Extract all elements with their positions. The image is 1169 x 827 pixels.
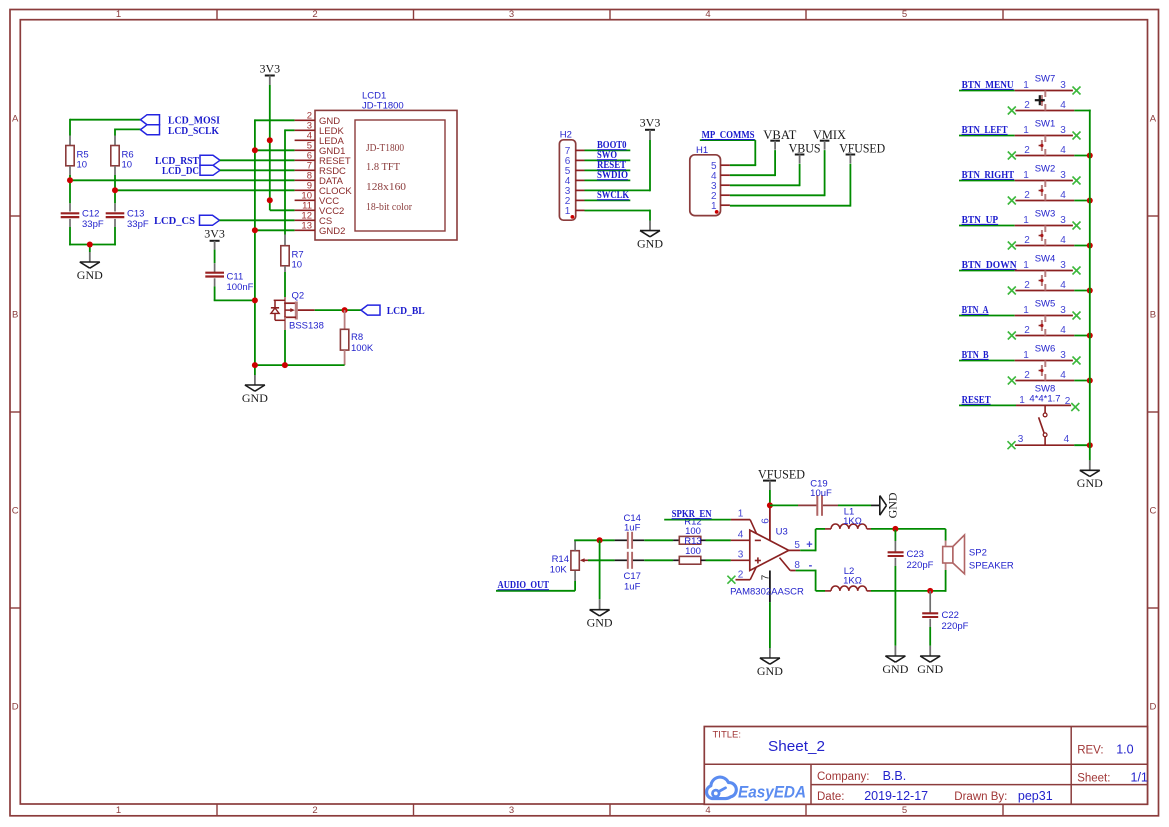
wire C23 to gnd	[894, 566, 896, 656]
no-connect X SW6 pin2	[1008, 377, 1016, 385]
connector LCD1 JD-T1800	[315, 91, 457, 241]
ground	[757, 658, 783, 678]
svg-text:A: A	[1150, 113, 1157, 124]
resistor R5	[66, 136, 89, 176]
no-connect X SW7 pin3	[1073, 87, 1081, 95]
svg-text:5: 5	[902, 9, 907, 20]
svg-text:4: 4	[1064, 434, 1070, 445]
wire LCD_RST to pin 6	[220, 159, 295, 161]
cursor crosshair	[1035, 95, 1045, 105]
svg-text:3: 3	[1060, 125, 1066, 136]
wire / net label BTN_DOWN	[959, 260, 1017, 271]
svg-text:GND: GND	[242, 391, 268, 405]
junction Q2 source	[282, 362, 288, 368]
LCD1 pin 3 LEDK	[295, 121, 345, 137]
wire VFUSED to U3 pin6	[769, 490, 771, 505]
svg-text:SP2: SP2	[969, 548, 987, 559]
svg-text:1: 1	[1019, 395, 1025, 406]
wire / net label BTN_A	[959, 305, 1015, 316]
switch SW8 4*4*1.7	[1015, 384, 1074, 446]
net flag LCD_CS	[154, 215, 220, 227]
svg-text:4: 4	[1060, 100, 1066, 111]
power flag VBUS	[789, 141, 821, 164]
svg-text:3V3: 3V3	[640, 115, 661, 129]
net flag LCD_BL	[361, 305, 425, 317]
wire CLOCK row (R6 to LCD pin 9)	[115, 175, 295, 203]
junction L2/C22	[927, 588, 933, 594]
resistor R12 100	[673, 516, 705, 544]
power flag VMIX	[813, 127, 847, 150]
resistor R8 100K	[340, 310, 373, 365]
svg-text:GND: GND	[757, 664, 783, 678]
power flag 3V3 (C11)	[204, 226, 225, 249]
wire C19 to gnd	[838, 504, 871, 506]
svg-text:3: 3	[1060, 260, 1066, 271]
svg-text:5: 5	[902, 805, 907, 816]
svg-text:GND: GND	[587, 616, 613, 630]
svg-text:3V3: 3V3	[204, 226, 225, 240]
junction SW8/bus	[1087, 442, 1093, 448]
svg-text:TITLE:: TITLE:	[713, 730, 742, 741]
svg-text:H2: H2	[560, 129, 572, 140]
EasyEDA logo	[707, 777, 806, 801]
svg-text:10K: 10K	[550, 564, 568, 575]
wire button gnd bus	[1089, 110, 1091, 471]
wire H2 pin3 to 3V3	[585, 140, 651, 191]
svg-text:220pF: 220pF	[907, 560, 934, 571]
wire / net label AUDIO_OUT	[496, 580, 575, 591]
wire SW2 pin4 to gnd bus	[1074, 200, 1090, 202]
svg-text:U3: U3	[776, 526, 788, 537]
capacitor C13 33pF	[106, 203, 149, 230]
power flag VFUSED	[839, 141, 885, 164]
row letters left	[12, 113, 19, 712]
svg-text:SW6: SW6	[1035, 344, 1056, 355]
svg-text:C: C	[1149, 505, 1156, 516]
svg-text:2: 2	[1065, 396, 1071, 407]
H2 pin 5	[565, 166, 585, 177]
ground	[917, 656, 943, 676]
switch SW1	[1015, 119, 1075, 156]
wire DATA row (R5 to LCD pin 8)	[70, 175, 295, 203]
svg-text:4: 4	[705, 805, 710, 816]
resistor R6	[111, 136, 134, 176]
switch SW2	[1015, 164, 1075, 201]
wire L1 to speaker top	[871, 529, 946, 541]
junction L1/C23	[892, 526, 898, 532]
svg-text:BTN_MENU: BTN_MENU	[962, 80, 1014, 91]
svg-text:33pF: 33pF	[127, 219, 149, 230]
no-connect X SW8 pin3	[1008, 441, 1016, 449]
svg-text:B: B	[12, 309, 18, 320]
svg-text:SW1: SW1	[1035, 119, 1056, 130]
svg-text:GND: GND	[77, 268, 103, 282]
wire / net label SWO	[585, 150, 631, 161]
wire R14 top row	[574, 539, 614, 541]
wire H2 pin1 to GND	[585, 210, 651, 231]
transistor Q2 BSS138	[271, 291, 324, 332]
svg-text:JD-T1800: JD-T1800	[366, 142, 404, 154]
svg-text:B: B	[1150, 309, 1156, 320]
LCD1 pin 6 RESET	[295, 151, 351, 167]
LCD1 pin 9 CLOCK	[295, 181, 353, 197]
no-connect X SW8 pin2	[1071, 403, 1079, 411]
svg-text:SPKR_EN: SPKR_EN	[672, 509, 712, 520]
no-connect X SW7 pin2	[1008, 107, 1016, 115]
junction SW5/bus	[1087, 333, 1093, 339]
svg-text:GND: GND	[637, 237, 663, 251]
potentiometer R14 10K	[550, 540, 588, 581]
wire LEDK to R7	[285, 129, 295, 234]
wire C22 to gnd	[929, 627, 931, 656]
wire SW1 pin4 to gnd bus	[1074, 155, 1090, 157]
wire C12/C13 bottoms to GND	[69, 227, 116, 262]
svg-text:3: 3	[1060, 80, 1066, 91]
inductor L2 1KO	[825, 566, 871, 591]
wire U3 pin5 output	[789, 529, 825, 551]
wire H1 pin3 to VBUS	[730, 164, 800, 186]
power flag VFUSED (U3)	[758, 466, 805, 490]
svg-text:C: C	[12, 505, 19, 516]
svg-text:1: 1	[565, 206, 571, 217]
junction 3V3/LEDA	[267, 137, 273, 143]
svg-text:1uF: 1uF	[624, 523, 641, 534]
capacitor C19 10uF	[798, 478, 838, 516]
svg-text:BTN_DOWN: BTN_DOWN	[962, 260, 1017, 271]
H2 pin 7	[565, 146, 585, 157]
svg-text:100K: 100K	[351, 343, 374, 354]
LCD1 pin 7 RSDC	[295, 161, 346, 177]
capacitor C14 1uF	[615, 513, 645, 549]
svg-text:LCD_DC: LCD_DC	[162, 166, 199, 177]
ground	[882, 656, 908, 676]
svg-text:SWCLK: SWCLK	[597, 190, 630, 201]
svg-text:D: D	[12, 701, 19, 712]
ground	[242, 385, 268, 405]
wire / net label BTN_UP	[959, 215, 1015, 226]
net flag LCD_SCLK	[141, 125, 220, 138]
ground	[637, 231, 663, 251]
svg-text:6: 6	[761, 518, 772, 524]
svg-text:Date:: Date:	[817, 791, 845, 803]
junction R14 top / gnd drop	[597, 537, 603, 543]
junction SW2/bus	[1087, 198, 1093, 204]
net flag LCD_MOSI	[141, 115, 221, 127]
svg-text:220pF: 220pF	[942, 621, 969, 632]
no-connect X SW3 pin3	[1073, 222, 1081, 230]
svg-text:BTN_RIGHT: BTN_RIGHT	[962, 170, 1015, 181]
wire R6 top to LCD_SCLK flag	[115, 129, 141, 136]
svg-text:A: A	[12, 113, 19, 124]
svg-text:Q2: Q2	[292, 291, 305, 302]
svg-text:EasyEDA: EasyEDA	[738, 783, 806, 802]
LCD1 pin 13 GND2	[295, 221, 346, 237]
power flag VBAT	[763, 127, 796, 150]
junction SW3/bus	[1087, 243, 1093, 249]
svg-text:1: 1	[1023, 305, 1029, 316]
svg-text:4: 4	[705, 9, 710, 20]
wire SW3 pin4 to gnd bus	[1074, 245, 1090, 247]
H1 pin 4	[711, 171, 730, 182]
wire / net label MP_COMMS	[700, 130, 756, 165]
H2 pin 6	[565, 156, 585, 167]
svg-text:8: 8	[794, 560, 800, 571]
svg-text:128x160: 128x160	[366, 181, 407, 193]
svg-text:PAM8302AASCR: PAM8302AASCR	[730, 587, 804, 598]
H1 pin 3	[711, 181, 730, 192]
switch SW6	[1015, 344, 1075, 381]
wire / net label BOOT0	[585, 140, 631, 151]
ground (U3 pin7)	[769, 602, 771, 658]
net flag LCD_DC	[162, 165, 220, 177]
no-connect X SW2 pin3	[1073, 177, 1081, 185]
LCD1 pin 4 LEDA	[295, 131, 345, 147]
ground	[587, 610, 613, 630]
svg-text:5: 5	[794, 540, 800, 551]
switch SW3	[1015, 209, 1075, 246]
no-connect X SW5 pin2	[1008, 332, 1016, 340]
svg-text:2: 2	[1024, 190, 1030, 201]
svg-text:VFUSED: VFUSED	[839, 141, 885, 156]
svg-text:SW3: SW3	[1035, 209, 1056, 220]
junction rail/gnd	[252, 362, 258, 368]
svg-text:3: 3	[1060, 215, 1066, 226]
svg-text:R14: R14	[552, 554, 569, 565]
svg-text:1: 1	[1023, 215, 1029, 226]
svg-text:1: 1	[1023, 170, 1029, 181]
junction SW4/bus	[1087, 288, 1093, 294]
svg-text:Company:: Company:	[817, 771, 869, 783]
wire H1 pin1 to VFUSED	[730, 164, 851, 207]
power flag 3V3 (LCD supply)	[259, 61, 280, 85]
wire pin6 junction to C19	[770, 504, 798, 506]
svg-text:2: 2	[1024, 325, 1030, 336]
wire H1 pin4 to VBAT	[730, 150, 775, 176]
H2 pin 2	[565, 196, 585, 207]
svg-text:18-bit color: 18-bit color	[366, 201, 412, 213]
no-connect X SW4 pin3	[1073, 267, 1081, 275]
svg-text:2: 2	[1024, 280, 1030, 291]
wire LCD_CS to pin 12	[220, 219, 295, 221]
LCD1 pin 5 GND1	[295, 141, 346, 157]
switch SW5	[1015, 299, 1075, 336]
LCD1 pin 10 VCC	[295, 191, 340, 207]
svg-text:AUDIO_OUT: AUDIO_OUT	[498, 580, 550, 591]
svg-text:BTN_LEFT: BTN_LEFT	[962, 125, 1008, 136]
svg-text:C23: C23	[907, 549, 924, 560]
wire LCD_DC to pin 7	[220, 169, 295, 171]
H1 pin 5	[711, 161, 730, 172]
svg-text:10: 10	[77, 160, 88, 171]
no-connect X SW4 pin2	[1008, 287, 1016, 295]
svg-text:2: 2	[312, 9, 317, 20]
wire C17 to R13	[644, 559, 673, 561]
svg-text:MP_COMMS: MP_COMMS	[702, 130, 755, 141]
LCD1 pin 11 VCC2	[295, 201, 345, 217]
junction C12 GND wire	[87, 242, 93, 248]
svg-text:1.8 TFT: 1.8 TFT	[366, 161, 400, 173]
svg-text:3: 3	[509, 9, 514, 20]
wire gnd drop	[599, 540, 601, 609]
H1 pin1 marker	[715, 210, 719, 214]
wire / net label SWDIO	[585, 170, 631, 181]
junction C11/bus	[252, 297, 258, 303]
no-connect X U3 pin2	[727, 576, 735, 584]
svg-text:2: 2	[1024, 370, 1030, 381]
junction GND2	[252, 227, 258, 233]
svg-text:VBUS: VBUS	[789, 141, 821, 156]
wire R12 to U3 pin4	[706, 539, 731, 541]
svg-text:C12: C12	[82, 209, 99, 220]
svg-text:Sheet:: Sheet:	[1077, 772, 1110, 784]
H2 pin 3	[565, 186, 585, 197]
svg-text:BSS138: BSS138	[289, 321, 324, 332]
svg-text:BTN_B: BTN_B	[962, 350, 989, 361]
svg-text:3: 3	[509, 805, 514, 816]
junction R5/DATA	[67, 177, 73, 183]
svg-text:VBAT: VBAT	[763, 127, 796, 142]
svg-text:SW4: SW4	[1035, 254, 1056, 265]
svg-text:REV:: REV:	[1077, 745, 1103, 757]
resistor R13 100	[673, 536, 705, 564]
power flag 3V3 (H2)	[640, 115, 661, 140]
no-connect X SW3 pin2	[1008, 242, 1016, 250]
H2 pin 1	[565, 206, 585, 217]
svg-text:+: +	[806, 539, 812, 551]
svg-text:1: 1	[116, 9, 121, 20]
junction GND1	[252, 147, 258, 153]
wire / net label RESET	[585, 160, 631, 171]
svg-text:1uF: 1uF	[624, 581, 641, 592]
wire Q2 source / bottom gnd rail	[255, 330, 345, 385]
inductor L1 1KO	[825, 507, 871, 529]
svg-text:C17: C17	[623, 571, 640, 582]
svg-text:SWDIO: SWDIO	[597, 170, 628, 181]
svg-text:C22: C22	[942, 610, 959, 621]
no-connect X SW5 pin3	[1073, 312, 1081, 320]
svg-text:3: 3	[1060, 170, 1066, 181]
capacitor C22 220pF	[922, 591, 968, 632]
connector H2	[559, 129, 575, 220]
wire C11 to gnd bus	[214, 286, 255, 300]
H2 pin 4	[565, 176, 585, 187]
switch SW4	[1015, 254, 1075, 291]
svg-text:GND: GND	[1077, 476, 1103, 490]
wire R5 top to LCD_MOSI flag	[70, 119, 141, 136]
wire / net label RESET (SW8)	[959, 395, 1016, 406]
row letters right	[1149, 113, 1156, 712]
svg-text:BTN_UP: BTN_UP	[962, 215, 999, 226]
svg-text:13: 13	[301, 221, 312, 232]
svg-text:10uF: 10uF	[810, 488, 832, 499]
svg-text:1/1: 1/1	[1131, 770, 1148, 784]
svg-text:1: 1	[738, 508, 744, 519]
LCD1 pin 2 GND	[295, 111, 341, 127]
junction SW6/bus	[1087, 378, 1093, 384]
svg-text:GND2: GND2	[319, 226, 345, 237]
svg-text:33pF: 33pF	[82, 219, 104, 230]
ground	[77, 262, 103, 282]
title block	[704, 727, 1148, 805]
capacitor C12 33pF	[61, 203, 104, 230]
svg-text:R8: R8	[351, 332, 363, 343]
svg-text:LCD_BL: LCD_BL	[387, 306, 425, 317]
svg-text:RESET: RESET	[962, 395, 991, 406]
wire H1 pin5 to MP_COMMS	[730, 164, 756, 166]
svg-text:LCD_CS: LCD_CS	[154, 216, 195, 227]
no-connect X SW1 pin3	[1073, 132, 1081, 140]
svg-text:3V3: 3V3	[259, 61, 280, 75]
svg-text:SW2: SW2	[1035, 164, 1056, 175]
wire Q2 gate to LCD_BL	[315, 309, 361, 311]
svg-text:4: 4	[1060, 145, 1066, 156]
wire SW6 pin4 to gnd bus	[1074, 380, 1090, 382]
svg-text:3: 3	[1018, 434, 1024, 445]
svg-text:2: 2	[1024, 145, 1030, 156]
no-connect X SW2 pin2	[1008, 197, 1016, 205]
svg-text:1: 1	[1023, 350, 1029, 361]
svg-text:C13: C13	[127, 209, 144, 220]
svg-text:4: 4	[1060, 280, 1066, 291]
speaker SP2	[943, 535, 1014, 574]
wire / net label BTN_RIGHT	[959, 170, 1015, 181]
svg-text:VMIX: VMIX	[813, 127, 847, 142]
svg-text:2: 2	[738, 570, 744, 581]
svg-text:100nF: 100nF	[227, 282, 254, 293]
svg-text:1.0: 1.0	[1116, 743, 1133, 757]
svg-text:1: 1	[1023, 260, 1029, 271]
svg-text:2019-12-17: 2019-12-17	[864, 789, 928, 803]
switch SW7	[1015, 74, 1075, 111]
svg-text:4: 4	[1060, 370, 1066, 381]
wire / net label SPKR_EN	[664, 509, 731, 520]
capacitor C23 220pF	[888, 530, 934, 571]
svg-text:GND: GND	[882, 662, 908, 676]
svg-text:10: 10	[122, 160, 133, 171]
svg-text:SW7: SW7	[1035, 74, 1056, 85]
wire / net label BTN_LEFT	[959, 125, 1015, 136]
svg-text:3: 3	[1060, 305, 1066, 316]
wire C14 to R12	[644, 539, 673, 541]
wire / net label BTN_MENU	[959, 80, 1015, 91]
column numbers bottom	[116, 805, 907, 816]
column numbers top	[116, 9, 907, 20]
svg-text:2: 2	[1024, 100, 1030, 111]
wire U3 pin8 output	[780, 558, 826, 591]
no-connect X SW1 pin2	[1008, 152, 1016, 160]
H1 pin 2	[711, 191, 730, 202]
capacitor C17 1uF	[615, 552, 645, 593]
svg-text:C11: C11	[227, 272, 244, 283]
wire SW7 pin4 to gnd bus	[1074, 110, 1090, 112]
no-connect X SW6 pin3	[1073, 357, 1081, 365]
svg-text:1KΩ: 1KΩ	[843, 576, 862, 587]
ground	[1077, 470, 1103, 490]
junction R6/CLOCK	[112, 187, 118, 193]
svg-text:LCD_MOSI: LCD_MOSI	[168, 116, 220, 127]
wire L2 to speaker bottom	[871, 570, 946, 592]
svg-text:4: 4	[1060, 190, 1066, 201]
connector H1	[690, 145, 721, 216]
junction 3V3/VCC	[267, 197, 273, 203]
capacitor C11 100nF	[205, 250, 253, 293]
svg-text:pep31: pep31	[1018, 789, 1053, 803]
wire H1 pin2 to VMIX	[730, 150, 825, 196]
svg-text:1: 1	[116, 805, 121, 816]
wire wiper row	[588, 559, 615, 561]
wire SW8 pin4 to gnd bus	[1074, 444, 1091, 446]
H1 pin 1	[711, 201, 730, 212]
